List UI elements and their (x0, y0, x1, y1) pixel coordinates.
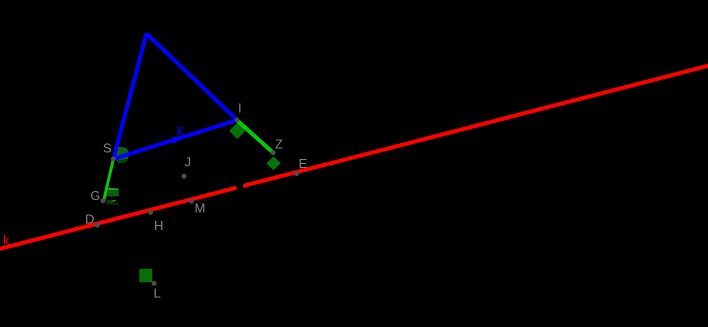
angle marker at G (bright mini triangle) (112, 200, 117, 202)
point J (182, 174, 187, 179)
point S (111, 157, 116, 162)
svg-text:H: H (154, 218, 163, 233)
svg-text:Z: Z (275, 137, 283, 152)
triangle side apex-I (147, 34, 238, 121)
angle marker at G (dark triangle) (104, 200, 117, 204)
point Z (271, 150, 276, 155)
angle marker at S (116, 146, 130, 161)
point M (189, 199, 194, 204)
point K (blue) (171, 137, 178, 144)
point D (95, 223, 100, 228)
segment S-G (104, 159, 114, 201)
square marker at Z (266, 156, 281, 170)
svg-text:k: k (3, 233, 10, 248)
svg-text:D: D (85, 212, 94, 227)
point H (148, 210, 153, 215)
point L (152, 281, 157, 286)
svg-text:M: M (195, 201, 206, 216)
svg-text:L: L (154, 286, 161, 301)
square marker at L (139, 269, 152, 282)
svg-text:K: K (177, 125, 186, 139)
square marker at I (229, 122, 245, 139)
line k (left part, ends at gap) (0, 188, 237, 250)
line k (right part after gap) (243, 65, 708, 186)
angle marker at G (upper quad) (106, 188, 119, 196)
point E (294, 171, 299, 176)
svg-text:J: J (185, 155, 192, 170)
point I (235, 118, 240, 123)
angle marker at G (dark streak) (106, 203, 120, 206)
svg-text:I: I (238, 101, 242, 116)
svg-text:E: E (299, 156, 308, 171)
segment I-Z (237, 120, 273, 152)
angle marker at G (bright top edge) (108, 188, 119, 190)
triangle side apex-S (113, 34, 146, 160)
angle marker at S (dark part below edge SI) (117, 159, 128, 164)
svg-text:S: S (103, 141, 112, 156)
svg-text:G: G (91, 189, 101, 203)
point G (101, 198, 106, 203)
triangle side S-I (113, 120, 237, 159)
